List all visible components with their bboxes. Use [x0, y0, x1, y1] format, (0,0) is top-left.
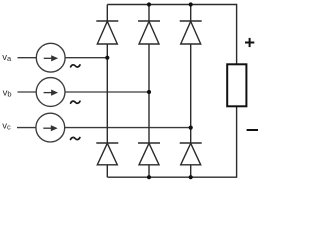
svg-text:va: va: [2, 52, 12, 63]
svg-text:vc: vc: [2, 121, 11, 132]
svg-text:vb: vb: [3, 87, 12, 98]
